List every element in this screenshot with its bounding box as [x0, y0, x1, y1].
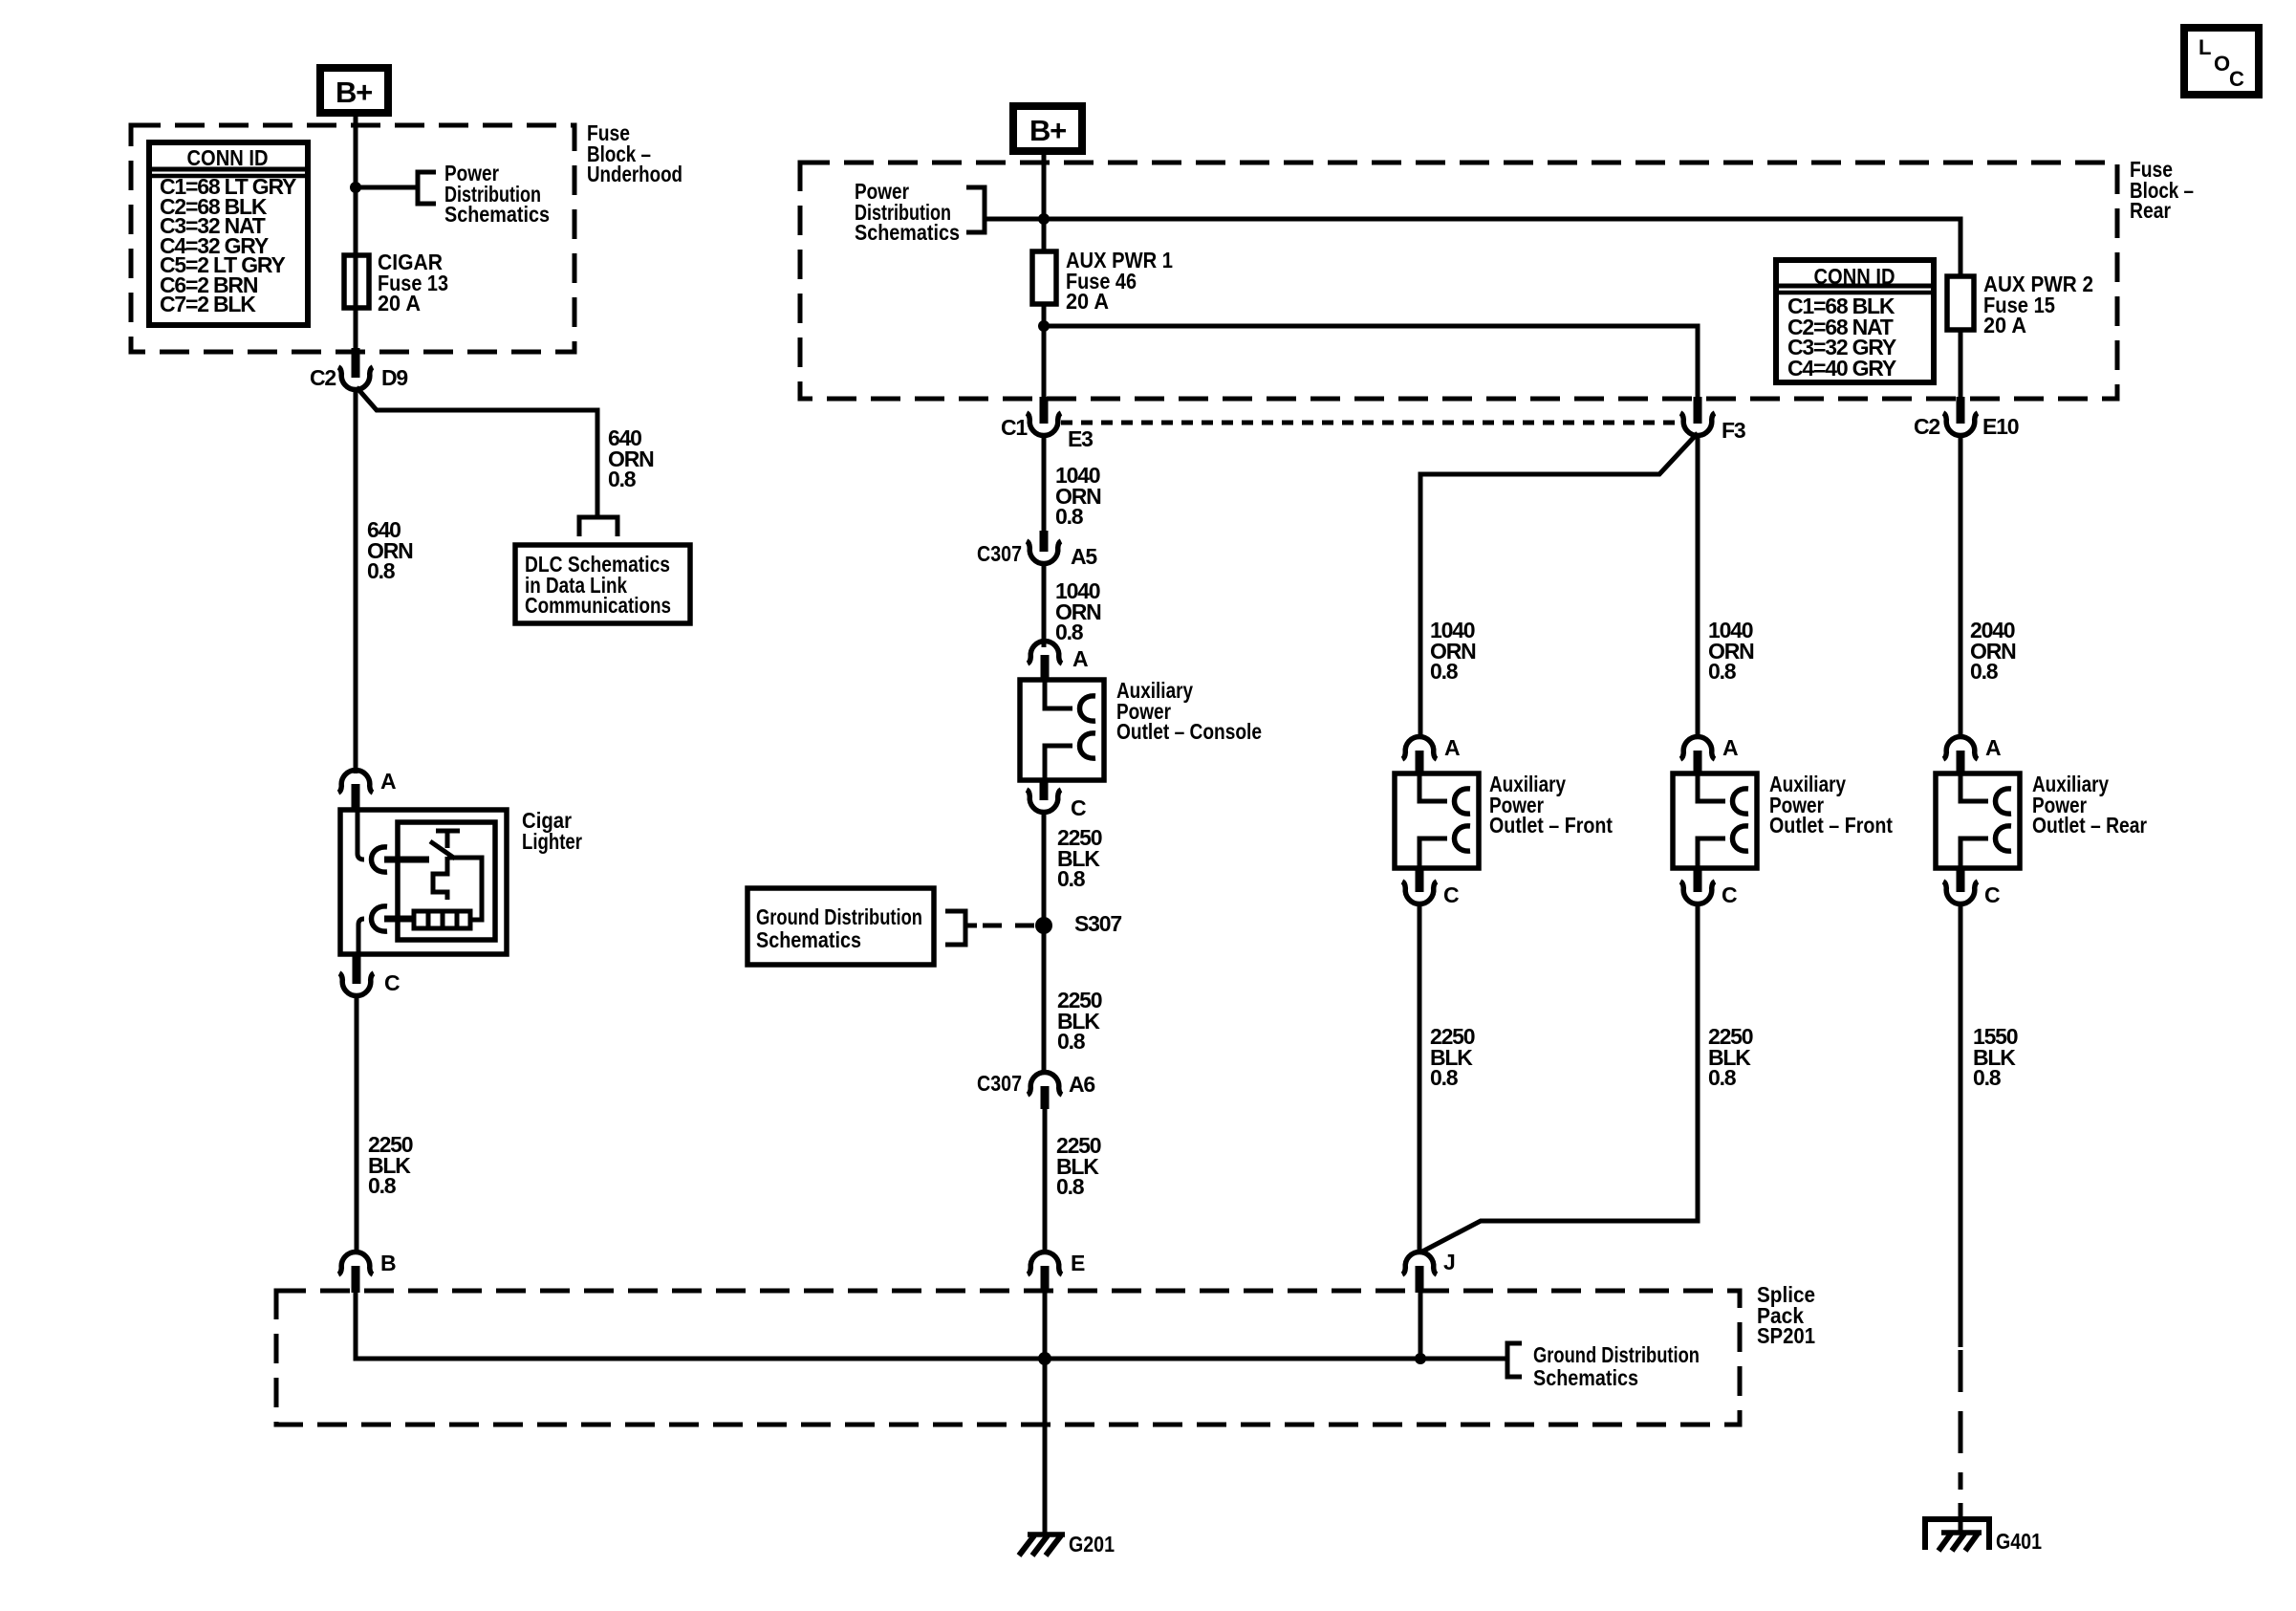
connector C front outlet 2 cup: [1680, 882, 1715, 904]
connector E arc: [1028, 1252, 1062, 1274]
connector A front outlet 1 pin: [1416, 751, 1424, 775]
DLC Schematics box: [515, 545, 690, 623]
label 1040 ORN 0.8 (upper): [1055, 463, 1101, 529]
label G401: [1996, 1529, 2042, 1554]
label 2250 BLK 0.8 (front 1): [1430, 1024, 1475, 1090]
label A (rear): [1985, 735, 2001, 760]
svg-text:CONN ID: CONN ID: [187, 145, 269, 170]
svg-text:Underhood: Underhood: [587, 162, 682, 186]
wire branch diagonal to DLC: [357, 387, 597, 516]
LOC reference box: [2184, 28, 2259, 95]
svg-text:G201: G201: [1069, 1532, 1115, 1557]
label Power Distribution Schematics (left): [444, 161, 550, 227]
label Auxiliary Power Outlet Front 2: [1769, 772, 1893, 838]
svg-text:SP201: SP201: [1757, 1323, 1815, 1348]
wire F3 branch to front outlet 1: [1420, 433, 1698, 738]
B+ power symbol (left battery feed): [320, 68, 388, 113]
label G201: [1069, 1532, 1115, 1557]
label 2250 BLK 0.8 (left): [368, 1132, 413, 1198]
wire fuse to connector C2/D9: [354, 308, 358, 348]
svg-text:0.8: 0.8: [1973, 1065, 2002, 1090]
dotted connector line E3 to F3: [1061, 421, 1684, 425]
ground distribution schematics box (S307): [747, 888, 934, 965]
label C (rear): [1984, 882, 2000, 907]
connector A front outlet 2 arc: [1680, 736, 1715, 759]
bracket ground distribution (S307): [945, 911, 977, 945]
label C2: [310, 365, 336, 390]
svg-text:E10: E10: [1982, 414, 2019, 439]
bracket power distribution (left): [418, 172, 436, 204]
label C307 (A5): [977, 541, 1022, 566]
svg-text:A: A: [1072, 646, 1088, 671]
cigar lighter outer box: [340, 810, 507, 954]
connector C rear pin: [1957, 868, 1965, 892]
label Splice Pack SP201: [1757, 1282, 1815, 1348]
connector C2/D9 cup: [338, 367, 373, 390]
auxiliary power outlet front 2 box: [1673, 773, 1757, 868]
fuse AUX PWR 1 Fuse 46 20A: [1032, 251, 1056, 304]
svg-text:C4=40 GRY: C4=40 GRY: [1787, 356, 1896, 381]
node junction on B+ feed (power distribution): [1038, 213, 1050, 225]
svg-text:Outlet – Front: Outlet – Front: [1769, 813, 1893, 838]
label AUX PWR 2 Fuse 15 20 A: [1983, 272, 2093, 337]
dashed wire to G401: [1959, 1350, 1963, 1490]
cigar lighter socket contact bottom: [372, 906, 388, 931]
wire B into splice pack: [354, 1291, 358, 1359]
label S307: [1074, 911, 1121, 936]
svg-text:Schematics: Schematics: [444, 202, 550, 227]
label AUX PWR 1 Fuse 46 20 A: [1066, 248, 1173, 314]
label C1: [1001, 415, 1028, 440]
svg-text:D9: D9: [381, 365, 407, 390]
connector A console pin: [1041, 655, 1050, 682]
svg-text:B+: B+: [1029, 114, 1066, 147]
label D9: [381, 365, 407, 390]
label 1040 ORN 0.8 (front outlet 1): [1430, 618, 1476, 684]
svg-text:E3: E3: [1068, 426, 1093, 451]
CONN ID table (rear): [1776, 260, 1934, 382]
label 1550 BLK 0.8 (rear): [1973, 1024, 2018, 1090]
label 640 ORN 0.8 (left): [367, 517, 413, 583]
connector C front outlet 1 pin: [1416, 868, 1424, 892]
node splice E junction: [1038, 1352, 1051, 1365]
node junction to power distribution (left): [350, 182, 361, 193]
label Auxiliary Power Outlet Front 1: [1489, 772, 1613, 838]
wire cigar C down to splice B: [355, 993, 359, 1252]
cigar lighter bottom contact wire: [358, 919, 364, 952]
svg-text:A: A: [1985, 735, 2001, 760]
wire C2/D9 down to cigar lighter: [354, 387, 358, 773]
ground G201: [1019, 1535, 1065, 1556]
connector C front outlet 1 cup: [1402, 882, 1437, 904]
cigar lighter switch T bar: [436, 831, 460, 848]
svg-text:A: A: [1722, 735, 1738, 760]
svg-text:CONN ID: CONN ID: [1814, 264, 1895, 289]
label F3: [1722, 418, 1745, 443]
connector C307/A5 pin: [1040, 531, 1049, 552]
svg-text:C307: C307: [977, 541, 1022, 566]
svg-text:20 A: 20 A: [1983, 313, 2026, 337]
svg-text:C: C: [1722, 882, 1737, 907]
fuse block underhood dashed box: [131, 125, 574, 352]
svg-text:C7=2 BLK: C7=2 BLK: [160, 292, 256, 316]
label A5: [1071, 544, 1097, 569]
svg-text:C: C: [384, 970, 400, 995]
label 2250 BLK 0.8 (console upper): [1057, 825, 1102, 891]
label Power Distribution Schematics (middle): [855, 179, 960, 245]
connector A rear pin: [1957, 751, 1965, 775]
fuse AUX PWR 2 Fuse 15 20A: [1947, 276, 1974, 330]
label 2250 BLK 0.8 (above E): [1056, 1133, 1101, 1199]
B+ power symbol (rear battery feed): [1013, 106, 1082, 151]
label 2250 BLK 0.8 (below S307): [1057, 988, 1102, 1054]
svg-text:S307: S307: [1074, 911, 1121, 936]
label E: [1071, 1251, 1085, 1275]
connector C console pin: [1040, 780, 1049, 800]
svg-text:0.8: 0.8: [1708, 1065, 1737, 1090]
label Ground Distribution Schematics (splice): [1533, 1342, 1700, 1390]
svg-text:Rear: Rear: [2130, 198, 2171, 223]
svg-text:A: A: [380, 769, 396, 794]
wire AUX PWR 2 to connector E10: [1959, 330, 1963, 399]
wire rear outlet to ground G401 solid part: [1959, 902, 1963, 1347]
connector C1/E3 cup: [1027, 413, 1061, 436]
svg-text:Communications: Communications: [525, 593, 671, 618]
connector C2/E10 pin: [1957, 397, 1965, 424]
ground G401: [1939, 1533, 1982, 1551]
cigar lighter thermal element: [433, 857, 447, 900]
connector C console cup: [1027, 790, 1061, 813]
svg-text:L: L: [2199, 35, 2211, 59]
svg-text:Schematics: Schematics: [855, 220, 960, 245]
wire A5 to console outlet: [1042, 561, 1047, 647]
connector B pin: [352, 1266, 360, 1293]
connector A front outlet 2 pin: [1694, 751, 1702, 775]
wire splice to ground G201: [1043, 1359, 1048, 1534]
connector C307/A6 pin: [1041, 1086, 1050, 1109]
connector F3 cup: [1680, 413, 1715, 436]
connector C cigar cup: [339, 973, 374, 996]
connector C2/D9 pin: [352, 348, 360, 378]
cigar lighter switch arm: [430, 841, 455, 859]
label C307 (A6): [977, 1071, 1022, 1096]
cigar lighter blade bottom: [384, 916, 414, 923]
wire E3 to C307/A5: [1042, 433, 1047, 534]
svg-text:E: E: [1071, 1251, 1085, 1275]
wire front outlet 1 to J: [1418, 902, 1422, 1251]
label A (front 2): [1722, 735, 1738, 760]
svg-text:F3: F3: [1722, 418, 1745, 443]
wire front outlet 2 down and over to J: [1422, 902, 1698, 1252]
svg-text:0.8: 0.8: [1057, 1029, 1086, 1054]
label Fuse Block Underhood: [587, 120, 682, 186]
wire bracket to AUX PWR 2 feed: [985, 219, 1960, 276]
label 640 ORN 0.8 (DLC branch): [608, 425, 654, 491]
svg-text:0.8: 0.8: [1056, 1174, 1085, 1199]
svg-text:0.8: 0.8: [1057, 866, 1086, 891]
svg-text:0.8: 0.8: [1430, 1065, 1459, 1090]
label C (front 2): [1722, 882, 1737, 907]
label C2 (E10): [1914, 414, 1939, 439]
CONN ID table (underhood): [149, 142, 308, 325]
svg-text:0.8: 0.8: [608, 467, 637, 491]
svg-text:20 A: 20 A: [1066, 289, 1109, 314]
wire stub into G401: [1959, 1503, 1963, 1532]
svg-text:0.8: 0.8: [1055, 504, 1084, 529]
cigar lighter inner box: [398, 822, 495, 940]
wire console C to S307: [1042, 810, 1047, 1073]
svg-text:C2: C2: [310, 365, 336, 390]
svg-text:O: O: [2214, 52, 2230, 76]
connector C1/E3 pin: [1040, 397, 1049, 424]
svg-text:C2: C2: [1914, 414, 1939, 439]
svg-text:C: C: [1071, 795, 1086, 820]
wire AUX PWR 1 to F3 feed: [1042, 304, 1047, 399]
label A6: [1069, 1072, 1094, 1097]
svg-text:C307: C307: [977, 1071, 1022, 1096]
splice pack SP201 dashed box: [276, 1291, 1740, 1425]
connector C front outlet 2 pin: [1694, 868, 1702, 892]
auxiliary power outlet front 1 box: [1395, 773, 1479, 868]
svg-text:C: C: [1443, 882, 1459, 907]
label CIGAR Fuse 13 20 A: [378, 250, 448, 316]
connector A front outlet 1 arc: [1402, 736, 1437, 759]
svg-text:A5: A5: [1071, 544, 1097, 569]
bracket into DLC box: [579, 517, 617, 536]
svg-text:Outlet – Rear: Outlet – Rear: [2032, 813, 2147, 838]
wire A6 to splice E: [1043, 1107, 1048, 1252]
connector J pin: [1416, 1266, 1424, 1293]
ground G401 shield bracket: [1925, 1519, 1989, 1550]
svg-text:A6: A6: [1069, 1072, 1094, 1097]
svg-text:A: A: [1444, 735, 1460, 760]
wire F3 down to front outlet 2: [1696, 433, 1700, 738]
svg-text:Schematics: Schematics: [1533, 1365, 1638, 1390]
label A (console): [1072, 646, 1088, 671]
label C (front 1): [1443, 882, 1459, 907]
label Cigar Lighter: [522, 808, 582, 854]
node splice J junction: [1415, 1353, 1426, 1364]
splice S307 junction dot: [1035, 917, 1052, 934]
svg-text:Outlet – Console: Outlet – Console: [1116, 719, 1262, 744]
connector C307/A5 cup: [1027, 541, 1061, 564]
svg-text:0.8: 0.8: [1055, 620, 1084, 644]
connector A cigar lighter pin: [352, 784, 360, 812]
auxiliary power outlet console box: [1020, 680, 1104, 780]
connector A cigar lighter arc: [338, 770, 373, 793]
label Fuse Block Rear: [2130, 157, 2194, 223]
dashed link bracket to S307: [983, 924, 1038, 928]
svg-text:C: C: [2229, 67, 2244, 91]
label DLC Schematics in Data Link Communications: [525, 552, 671, 618]
cigar lighter socket contact top: [372, 847, 388, 872]
connector J arc: [1402, 1252, 1437, 1274]
svg-text:0.8: 0.8: [367, 558, 396, 583]
svg-text:B: B: [380, 1251, 396, 1275]
svg-text:G401: G401: [1996, 1529, 2042, 1554]
splice bus wire: [356, 1356, 1507, 1359]
bracket ground distribution (splice): [1507, 1343, 1522, 1377]
bracket power distribution (middle): [966, 187, 985, 232]
auxiliary power outlet rear box: [1936, 773, 2020, 868]
wire junction to bracket (left): [356, 185, 418, 190]
wire E into splice pack: [1043, 1291, 1048, 1359]
connector F3 pin: [1694, 397, 1702, 424]
cigar lighter heater box: [414, 911, 470, 928]
connector A rear arc: [1943, 736, 1978, 759]
label 2040 ORN 0.8 (rear): [1970, 618, 2016, 684]
label C (cigar): [384, 970, 400, 995]
svg-text:0.8: 0.8: [1970, 659, 1999, 684]
label E3: [1068, 426, 1093, 451]
connector C307/A6 arc: [1028, 1072, 1062, 1095]
connector C rear cup: [1943, 882, 1978, 904]
svg-text:0.8: 0.8: [368, 1173, 397, 1198]
wire junction to F3 column: [1044, 326, 1698, 399]
label A (cigar lighter): [380, 769, 396, 794]
svg-text:0.8: 0.8: [1430, 659, 1459, 684]
wire B+ down into underhood fuse block: [354, 113, 358, 348]
label 1040 ORN 0.8 (front outlet 2): [1708, 618, 1754, 684]
label J: [1443, 1250, 1455, 1274]
wire B+ down to AUX PWR 1 fuse: [1042, 151, 1047, 251]
svg-text:B+: B+: [336, 76, 372, 109]
svg-text:20 A: 20 A: [378, 291, 421, 316]
label C (console): [1071, 795, 1086, 820]
svg-text:Ground Distribution: Ground Distribution: [1533, 1342, 1700, 1367]
label E10: [1982, 414, 2019, 439]
connector C2/E10 cup: [1943, 413, 1978, 436]
cigar lighter right link: [447, 858, 482, 920]
cigar lighter blade top: [384, 857, 429, 863]
connector B arc: [338, 1252, 373, 1274]
svg-text:0.8: 0.8: [1708, 659, 1737, 684]
connector C cigar pin: [353, 954, 361, 984]
label Auxiliary Power Outlet Console: [1116, 678, 1262, 744]
cigar lighter top contact wire: [357, 812, 364, 860]
svg-text:Lighter: Lighter: [522, 829, 582, 854]
svg-text:J: J: [1443, 1250, 1455, 1274]
svg-text:Outlet – Front: Outlet – Front: [1489, 813, 1613, 838]
fuse block rear dashed box: [800, 163, 2117, 399]
svg-text:C: C: [1984, 882, 2000, 907]
label A (front 1): [1444, 735, 1460, 760]
label Auxiliary Power Outlet Rear: [2032, 772, 2147, 838]
label 2250 BLK 0.8 (front 2): [1708, 1024, 1753, 1090]
connector E pin: [1041, 1266, 1050, 1293]
fuse CIGAR Fuse 13 20A: [344, 255, 369, 308]
label 1040 ORN 0.8 (lower): [1055, 578, 1101, 644]
svg-text:C1: C1: [1001, 415, 1028, 440]
wire J into splice pack: [1419, 1291, 1423, 1359]
label B: [380, 1251, 396, 1275]
wire E10 down to rear outlet: [1959, 433, 1963, 738]
svg-text:Ground Distribution: Ground Distribution: [756, 904, 922, 929]
svg-text:Schematics: Schematics: [756, 927, 861, 952]
connector A console arc: [1028, 641, 1062, 664]
node junction below fuse 46: [1038, 320, 1050, 332]
